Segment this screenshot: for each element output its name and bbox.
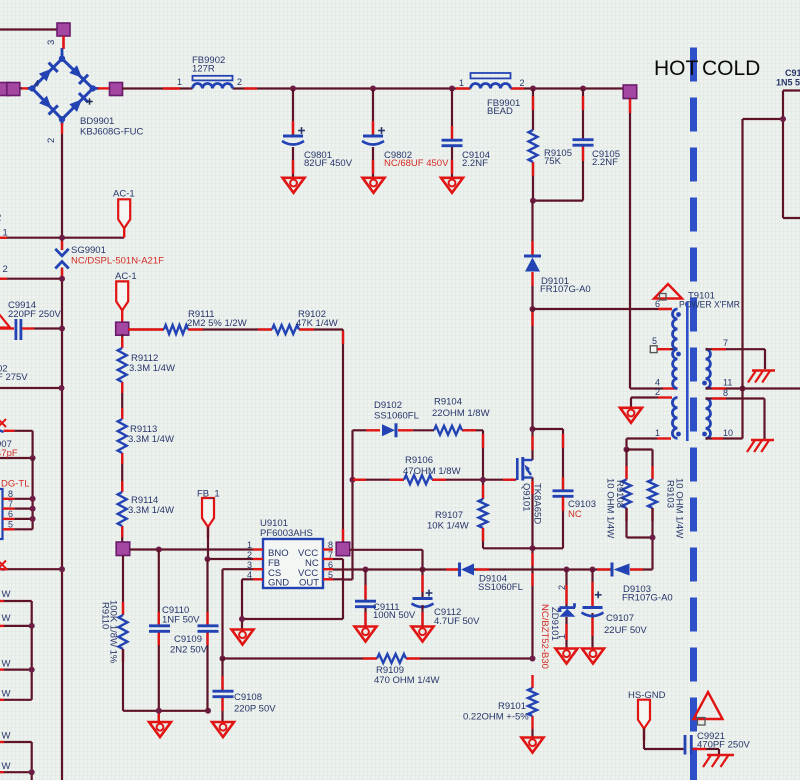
label R9108 (rotated) xyxy=(605,478,626,538)
label C9103 xyxy=(568,499,596,520)
warning triangle T9101 xyxy=(654,284,682,300)
red pin lead bridge left xyxy=(21,87,28,89)
pin label T5 xyxy=(652,336,657,346)
wire C9802 lead xyxy=(372,89,374,178)
label C9902 partial xyxy=(0,364,28,384)
junction node C9105 xyxy=(580,86,586,92)
label C9108 xyxy=(234,692,276,715)
wire C9921 to chassis xyxy=(706,749,719,755)
label D9104 xyxy=(478,574,523,594)
red leads C9109 xyxy=(206,612,208,645)
wire 47pF row xyxy=(0,457,33,459)
svg-text:R9108: R9108 xyxy=(614,480,625,508)
svg-text:KBJ608G-FUC: KBJ608G-FUC xyxy=(80,127,143,138)
red lead T pin1 xyxy=(657,437,671,439)
label C9914 xyxy=(8,300,61,320)
red leads R9113 xyxy=(121,408,123,464)
transistor Q9101 xyxy=(517,457,532,481)
wire T pin8 xyxy=(706,399,765,440)
junction node C9110 tap xyxy=(156,547,162,553)
svg-text:8: 8 xyxy=(723,388,728,398)
svg-text:7: 7 xyxy=(8,499,13,509)
red leads C9107 xyxy=(591,582,593,636)
pin label T6 xyxy=(655,299,660,309)
red lead R9107 bottom xyxy=(482,528,484,541)
svg-text:W: W xyxy=(2,689,11,700)
red leads D9103 xyxy=(597,568,643,570)
svg-text:F 275V: F 275V xyxy=(0,372,28,383)
red lead FB_1 xyxy=(207,527,209,538)
red lead C9921 right xyxy=(693,748,707,750)
red leads source bus xyxy=(531,481,533,586)
red lead FB9902 pin1 xyxy=(163,87,180,89)
wire C9103 top xyxy=(533,429,564,491)
red lead AC-1 lower xyxy=(121,311,123,323)
junction node primary top xyxy=(530,306,536,312)
svg-text:DG-TL: DG-TL xyxy=(1,479,30,490)
wire R9105 leads xyxy=(532,89,534,201)
pin label 3 (rotated) xyxy=(46,40,57,45)
red leads R9101 xyxy=(531,675,533,729)
label T9101 xyxy=(679,291,740,311)
svg-text:220P 50V: 220P 50V xyxy=(234,704,276,715)
svg-text:2.2NF: 2.2NF xyxy=(462,158,488,169)
red leads C9108 xyxy=(221,676,223,711)
junction node ZD9101 tap xyxy=(564,567,570,573)
svg-text:5: 5 xyxy=(8,520,13,530)
wire output diode loop xyxy=(743,91,800,219)
capacitor C9921 xyxy=(685,735,691,755)
wire C9109 column xyxy=(206,559,208,711)
svg-text:C9108: C9108 xyxy=(234,692,262,703)
connector AC-1 upper xyxy=(118,199,130,228)
wire startup row xyxy=(128,328,343,330)
red lead C9105 xyxy=(582,96,584,161)
junction node C9103 tap xyxy=(530,426,536,432)
red leads R9108 xyxy=(625,466,627,521)
svg-text:4: 4 xyxy=(34,79,39,90)
svg-text:2: 2 xyxy=(46,138,57,143)
svg-text:470 OHM 1/4W: 470 OHM 1/4W xyxy=(374,675,439,686)
red lead y430 xyxy=(4,430,15,432)
pin label T2 xyxy=(655,387,660,397)
red lead B+ top xyxy=(629,99,631,113)
transformer winding 7-11 xyxy=(702,349,710,388)
junction node gnd rail C9109 xyxy=(205,708,211,714)
wire T pin2 xyxy=(631,398,658,408)
label SG9901 xyxy=(71,245,164,267)
svg-text:6: 6 xyxy=(8,509,13,519)
red leads C9111 xyxy=(364,585,366,625)
svg-text:D9102: D9102 xyxy=(374,400,402,411)
label C9111 xyxy=(373,602,416,621)
pin labels ZD9101 xyxy=(557,585,567,639)
svg-text:W: W xyxy=(2,659,11,670)
connector DG-TL box xyxy=(0,489,3,539)
connector square BNO node xyxy=(116,542,130,556)
wire line y388 xyxy=(0,387,62,389)
label D9103 xyxy=(622,584,673,604)
wire R9110 bottom xyxy=(123,649,208,711)
red leads R9103 xyxy=(651,466,653,521)
wire left edge to bridge pin 4 xyxy=(0,87,22,89)
junction node C9104 xyxy=(449,86,455,92)
red spark gap leads xyxy=(61,241,63,279)
red lead R9107 top xyxy=(482,434,484,498)
junction node CS xyxy=(220,656,226,662)
symbol NC X lower xyxy=(0,561,6,569)
label C9907 partial xyxy=(0,439,18,459)
wire startup vertical xyxy=(342,330,344,543)
junction node shunt top xyxy=(530,656,536,662)
wire primary pin6 row xyxy=(533,308,673,310)
connector square HV rail xyxy=(623,85,637,99)
resistor R9103 xyxy=(648,480,657,509)
red leads R9106 xyxy=(353,479,515,481)
svg-text:NC/BZT52-B30: NC/BZT52-B30 xyxy=(539,604,550,669)
svg-text:W: W xyxy=(2,761,11,772)
connector square pin 4 edge xyxy=(0,83,20,96)
wire pin3 CS xyxy=(223,569,254,658)
red leads R9104 xyxy=(462,429,476,431)
svg-text:R9107: R9107 xyxy=(435,510,463,521)
diode D9102 xyxy=(382,423,396,437)
ground C9801 xyxy=(283,178,305,193)
junction node gate R9107 xyxy=(480,477,486,483)
transformer core line xyxy=(686,302,689,441)
junction node output tap xyxy=(780,116,786,122)
svg-text:10 OHM 1/4W: 10 OHM 1/4W xyxy=(674,478,685,538)
red lead FB9901 pin1 xyxy=(456,87,470,89)
svg-text:BEAD: BEAD xyxy=(487,106,513,117)
svg-text:FR107G-A0: FR107G-A0 xyxy=(540,284,591,295)
svg-text:3.3M 1/4W: 3.3M 1/4W xyxy=(128,505,174,516)
ground C9108 xyxy=(212,722,234,737)
pin label 4 xyxy=(34,79,39,90)
transformer winding 2-1 xyxy=(672,398,681,439)
pin label T11 xyxy=(723,378,732,388)
red leads ZD9101 xyxy=(565,585,567,640)
svg-text:82UF 450V: 82UF 450V xyxy=(304,158,353,169)
capacitor C9107 xyxy=(582,591,604,616)
resistor R9106 xyxy=(404,475,432,484)
svg-text:47K 1/4W: 47K 1/4W xyxy=(296,318,338,329)
svg-text:75K: 75K xyxy=(544,156,562,167)
red leads D9102 xyxy=(366,429,413,431)
ground C9802 xyxy=(363,178,385,193)
transformer winding 8-10 xyxy=(702,399,710,439)
label R9107 xyxy=(427,510,469,532)
red leads R9112 xyxy=(121,337,123,393)
label BD9901 xyxy=(80,116,143,138)
wire R9101 bottom xyxy=(531,729,533,738)
red lead HS-GND xyxy=(643,729,645,741)
label C9109 xyxy=(170,634,208,656)
red lead FB9901 pin2 xyxy=(511,87,524,89)
wire R9106 row xyxy=(353,479,517,481)
svg-text:W: W xyxy=(2,731,11,742)
svg-text:127R: 127R xyxy=(192,64,215,75)
wire y569 to bus xyxy=(0,568,62,570)
resistor R9102 xyxy=(272,325,299,334)
red lead T pin11 xyxy=(712,387,726,389)
pin label T4 xyxy=(655,378,660,388)
wire C9110 column xyxy=(158,550,160,723)
pin number labels U9101 xyxy=(247,540,333,580)
svg-text:AC-1: AC-1 xyxy=(115,271,137,282)
resistor R9110 xyxy=(119,615,128,649)
junction node VCC D9104 xyxy=(420,567,426,573)
wire T pin7 xyxy=(706,349,766,369)
ferrite bead FB9902 xyxy=(193,76,233,89)
svg-text:BD9901: BD9901 xyxy=(80,116,114,127)
red lead C9112 bottom xyxy=(421,612,423,625)
junction node C9914 bus xyxy=(59,326,65,332)
svg-text:4: 4 xyxy=(655,378,660,388)
capacitor C9802 xyxy=(362,127,385,144)
wire line2 stub xyxy=(0,278,62,280)
capacitor C9104 xyxy=(442,140,463,146)
ground small-signal left xyxy=(149,722,171,737)
diode D9101 xyxy=(524,256,541,272)
junction snubber bottom xyxy=(530,198,536,204)
junction node aux pin1 xyxy=(624,447,630,453)
red leads R9111 xyxy=(128,328,203,330)
wire secondary bus xyxy=(741,119,743,439)
junction node gate drive xyxy=(350,477,356,483)
capacitor C9914 xyxy=(16,319,21,340)
svg-text:C9109: C9109 xyxy=(174,634,202,645)
red lead T pin10 xyxy=(712,437,723,439)
wires resistor array stubs upper xyxy=(0,601,32,700)
svg-text:2M2 5% 1/2W: 2M2 5% 1/2W xyxy=(187,318,247,329)
red pin lead bridge bottom xyxy=(61,123,63,134)
wire D9102 row xyxy=(353,429,484,431)
label C9107 xyxy=(604,613,647,636)
red lead C9802 xyxy=(372,121,374,174)
red lead T pin7 xyxy=(712,348,726,350)
ground ZD9101 xyxy=(556,649,578,664)
HOT/COLD isolation divider (dashed line) xyxy=(690,48,697,780)
red lead T pin4 xyxy=(663,387,677,389)
wire T pin1 xyxy=(627,439,658,450)
svg-text:C9107: C9107 xyxy=(606,613,634,624)
wire CS row xyxy=(223,657,533,659)
wire C9103 bottom xyxy=(533,496,564,548)
label C9921 xyxy=(697,731,750,751)
label D9102 xyxy=(374,400,419,422)
svg-text:0.22OHM +-5%: 0.22OHM +-5% xyxy=(463,712,529,723)
wire drain bus upper xyxy=(531,201,533,256)
junction node source xyxy=(530,545,536,551)
wire pin1 BNO xyxy=(130,548,253,550)
pin numbers FB9901 xyxy=(459,78,525,88)
label R9114 xyxy=(128,495,174,516)
red stub line2 xyxy=(0,278,7,280)
wire VCC aux row xyxy=(333,568,653,570)
junction node FB xyxy=(205,556,211,562)
junction node AC bus 2 xyxy=(59,276,65,282)
label AC-1 lower xyxy=(115,271,137,282)
svg-text:5: 5 xyxy=(652,336,657,346)
wire source vertical xyxy=(531,478,533,659)
junction node C9107 tap xyxy=(590,567,596,573)
chassis ground pin7 xyxy=(748,371,775,383)
wire FB_1 down xyxy=(207,527,209,559)
wires resistor array stubs lower xyxy=(0,742,32,780)
red lead T pin2 xyxy=(658,396,672,398)
svg-text:2: 2 xyxy=(557,585,567,590)
diode D9103 xyxy=(612,563,630,577)
junction node AC bus 1 xyxy=(59,235,65,241)
svg-text:COLD: COLD xyxy=(702,57,760,80)
capacitor C9103 xyxy=(553,491,574,497)
ground C9111 xyxy=(355,627,377,642)
label C9104 xyxy=(462,150,490,169)
label R9103 (rotated) xyxy=(665,478,685,538)
junction nodes stub group upper xyxy=(29,623,35,673)
red lead C9801 xyxy=(292,121,294,174)
resistor R9104 xyxy=(434,426,462,435)
svg-text:22OHM 1/8W: 22OHM 1/8W xyxy=(432,408,490,419)
red lead startup corner xyxy=(342,331,344,541)
red pin stubs U9101 xyxy=(253,550,333,580)
pin label 2 partial xyxy=(0,213,1,224)
resistor R9112 xyxy=(118,348,127,382)
wire bridge pin 3 lead xyxy=(62,36,64,55)
junction node y569 bus xyxy=(59,566,65,572)
capacitor C9112 xyxy=(412,590,434,607)
svg-text:100N 50V: 100N 50V xyxy=(373,610,416,621)
svg-text:10: 10 xyxy=(723,428,733,438)
connector square bridge output xyxy=(110,83,123,96)
wire ZD9101 column xyxy=(565,570,567,649)
wire C9105 leads xyxy=(533,89,583,201)
transformer winding 5-4 xyxy=(673,349,681,388)
red lead C9914 right xyxy=(22,327,34,329)
svg-text:8: 8 xyxy=(8,489,13,499)
red leads R9102 xyxy=(258,328,314,330)
svg-text:NC/DSPL-501N-A21F: NC/DSPL-501N-A21F xyxy=(71,256,164,267)
red lead D9101 top xyxy=(531,241,533,255)
label C9110 xyxy=(162,605,200,626)
wire bridge pin2 bus xyxy=(61,134,63,780)
wire pin4 GND xyxy=(242,579,343,629)
junction node C9802 xyxy=(370,86,376,92)
svg-text:10 OHM 1/4W: 10 OHM 1/4W xyxy=(605,478,616,538)
svg-text:470PF 250V: 470PF 250V xyxy=(697,740,750,751)
resistor R9108 xyxy=(622,480,631,509)
svg-text:2: 2 xyxy=(237,77,242,87)
wire C9111 column xyxy=(364,570,366,627)
svg-text:1: 1 xyxy=(655,428,660,438)
wire R9107 bottom xyxy=(483,528,533,548)
wire HS-GND to C9921 xyxy=(644,729,684,750)
svg-text:1NF 50V: 1NF 50V xyxy=(162,615,200,626)
label AC-1 upper xyxy=(113,189,135,200)
red leads D9104 xyxy=(446,568,489,570)
junction node R9105 xyxy=(530,86,536,92)
svg-text:22UF 50V: 22UF 50V xyxy=(604,625,647,636)
red lead C9104 xyxy=(451,126,453,174)
label R9105 xyxy=(544,148,572,167)
svg-text:100K 1/8W 1%: 100K 1/8W 1% xyxy=(108,600,119,664)
labels W partial xyxy=(2,589,11,772)
label R9112 xyxy=(129,353,175,374)
svg-text:SG9901: SG9901 xyxy=(71,245,106,256)
junction nodes DG-TL xyxy=(30,496,36,522)
capacitor C9801 xyxy=(282,127,305,144)
capacitor C9109 xyxy=(198,626,219,632)
wire drain bus mid xyxy=(531,286,533,309)
red lead R9105 xyxy=(532,96,534,176)
junction node C9801 xyxy=(290,86,296,92)
IC U9101 box xyxy=(263,539,323,588)
svg-text:7: 7 xyxy=(723,338,728,348)
resistor R9107 xyxy=(479,499,488,528)
label R9104 xyxy=(432,397,490,420)
svg-text:1: 1 xyxy=(459,78,464,88)
junction node IC GND xyxy=(239,616,245,622)
red leads R9114 xyxy=(121,481,123,537)
label FB9902 xyxy=(192,55,225,75)
capacitor C9111 xyxy=(355,601,376,607)
wire aux split xyxy=(627,450,653,480)
red lead AC-1 upper xyxy=(123,229,125,238)
svg-text:220PF 250V: 220PF 250V xyxy=(8,309,61,320)
red lead FB9902 pin2 xyxy=(244,87,257,89)
ferrite bead FB9901 xyxy=(471,73,511,89)
pin numbers FB9902 xyxy=(177,77,242,87)
bridge rectifier BD9901 xyxy=(27,53,99,125)
wire aux join xyxy=(627,508,653,570)
label U9101 xyxy=(260,518,313,539)
label FB_1 xyxy=(197,489,220,500)
wire C9112 bottom xyxy=(421,605,423,626)
ground C9112 xyxy=(412,627,434,642)
wire VCC to C9112 xyxy=(350,550,423,598)
wire gate node vertical xyxy=(482,430,484,499)
svg-text:R9106: R9106 xyxy=(405,455,433,466)
junction node C9111 tap xyxy=(363,567,369,573)
red leads C9110 xyxy=(158,612,160,721)
wire C9914 to bus xyxy=(34,327,62,329)
red lead T pin5 xyxy=(657,348,677,350)
ground C9107 xyxy=(582,649,604,664)
svg-text:47OHM 1/8W: 47OHM 1/8W xyxy=(403,466,461,477)
wire pin2 FB xyxy=(208,558,254,560)
warning triangle HS area xyxy=(694,692,723,725)
svg-text:SS1060FL: SS1060FL xyxy=(374,411,419,422)
label HS-GND xyxy=(628,690,666,701)
pin label 2 (rotated) xyxy=(46,138,57,143)
label R9113 xyxy=(128,424,174,445)
red stub line1 xyxy=(0,236,7,238)
wire C9108 column xyxy=(221,659,223,723)
resistor R9111 xyxy=(164,325,188,334)
ground T pin2 xyxy=(620,408,642,423)
red pin lead bridge top xyxy=(62,36,64,49)
svg-text:1: 1 xyxy=(3,228,8,239)
junction node aux join xyxy=(650,535,656,541)
pin label T7 xyxy=(723,338,728,348)
red lead T pin8 xyxy=(712,397,726,399)
wire drain bus lower xyxy=(531,309,533,460)
svg-text:R9104: R9104 xyxy=(434,397,462,408)
junction node y388 xyxy=(59,385,65,391)
label C9105 xyxy=(592,149,620,168)
red lead T pin6 xyxy=(658,308,672,310)
